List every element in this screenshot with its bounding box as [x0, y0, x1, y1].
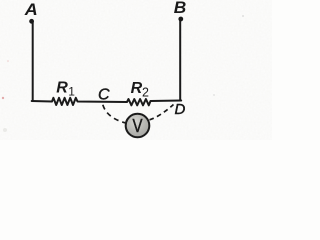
svg-text:R: R: [56, 80, 68, 97]
svg-text:C: C: [98, 86, 110, 103]
svg-text:1: 1: [68, 85, 75, 99]
svg-text:A: A: [24, 0, 38, 19]
svg-text:2: 2: [142, 86, 149, 100]
svg-text:B: B: [174, 0, 187, 17]
svg-text:R: R: [131, 80, 143, 97]
svg-text:V: V: [133, 116, 143, 136]
svg-text:D: D: [175, 101, 186, 118]
